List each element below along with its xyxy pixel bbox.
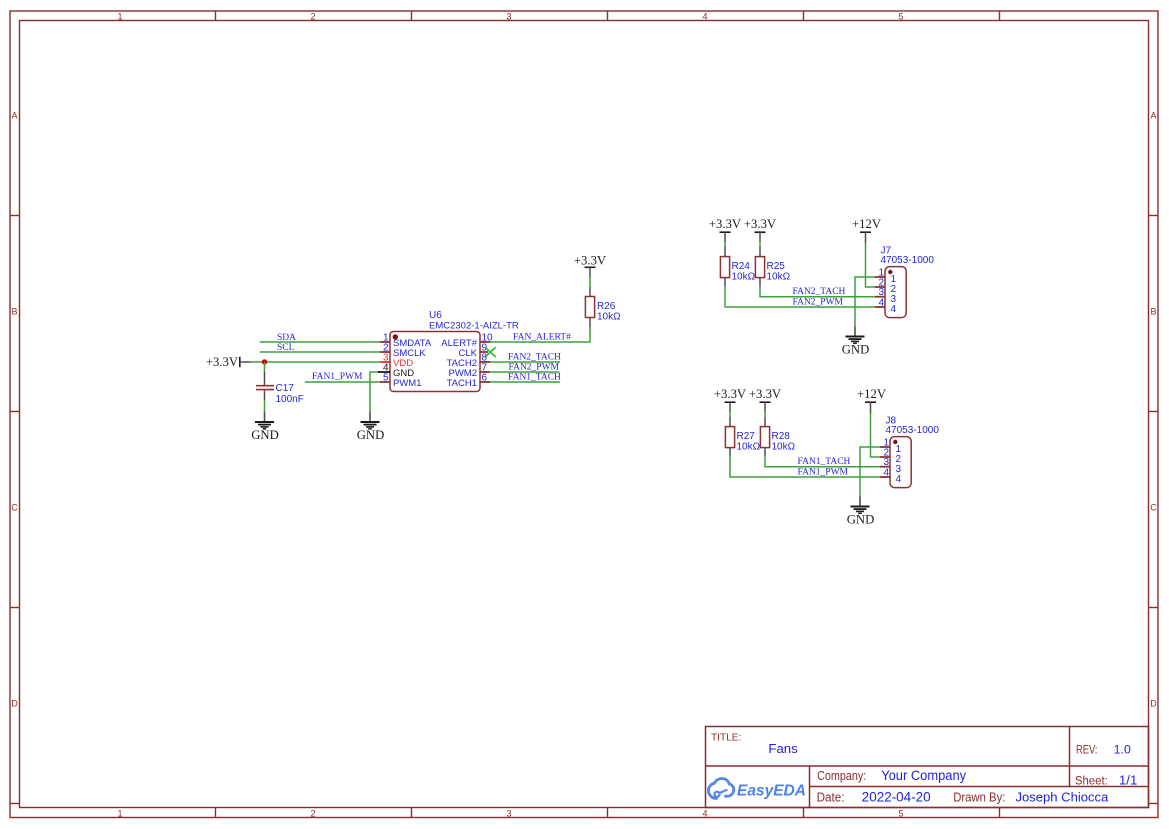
wire J7 pin 1 to ground <box>855 277 875 327</box>
wire +3.3V to R25 <box>759 242 761 257</box>
svg-text:Drawn By:: Drawn By: <box>953 791 1005 805</box>
svg-text:R25: R25 <box>767 261 786 272</box>
svg-text:Date:: Date: <box>817 790 845 805</box>
svg-text:GND: GND <box>847 512 875 526</box>
svg-text:R26: R26 <box>597 301 616 312</box>
svg-text:A: A <box>1150 111 1156 121</box>
wire VDD net <box>250 361 380 363</box>
svg-text:+3.3V: +3.3V <box>749 387 782 401</box>
net label SCL <box>277 343 295 353</box>
svg-text:TACH1: TACH1 <box>447 378 477 389</box>
svg-text:SCL: SCL <box>277 343 295 353</box>
svg-text:1: 1 <box>117 809 122 819</box>
svg-text:6: 6 <box>482 372 488 383</box>
wire +3.3V to R26 <box>589 277 591 297</box>
net FAN_ALERT# wire <box>490 327 590 342</box>
resistor R27 <box>725 427 760 453</box>
svg-text:+3.3V: +3.3V <box>709 217 742 231</box>
net label FAN1_TACH (J8) <box>798 457 851 467</box>
U6 pin names <box>393 338 478 389</box>
net label FAN2_PWM (U6) <box>509 362 560 372</box>
svg-text:GND: GND <box>357 428 385 442</box>
J8 pin 3 <box>880 457 902 475</box>
ground (U6 pin 4) <box>357 412 385 443</box>
U6 pin 4 stub <box>378 362 390 373</box>
U6 pin 10 stub <box>480 332 493 343</box>
net FAN1_PWM wire (left) <box>305 381 380 383</box>
net FAN2_TACH wire (U6) <box>490 361 560 363</box>
resistor R28 <box>760 427 795 453</box>
connector J7 47053-1000 <box>881 245 935 317</box>
svg-text:4: 4 <box>891 304 897 315</box>
EasyEDA logo <box>709 779 806 800</box>
svg-text:5: 5 <box>383 372 389 383</box>
svg-text:REV:: REV: <box>1076 744 1098 756</box>
svg-text:FAN1_PWM: FAN1_PWM <box>312 372 363 382</box>
connector J8 47053-1000 <box>886 415 940 487</box>
svg-text:3: 3 <box>506 12 511 22</box>
svg-text:C: C <box>1150 503 1157 513</box>
wire pin4 GND to ground <box>370 372 380 412</box>
net label FAN2_PWM (J7) <box>793 298 844 308</box>
net label FAN1_PWM <box>312 372 363 382</box>
power flag +3.3V (R28) <box>749 387 782 412</box>
svg-text:+12V: +12V <box>852 217 882 231</box>
wire +3.3V to R28 <box>764 412 766 427</box>
net label SDA <box>277 333 296 343</box>
wire +3.3V to R27 <box>729 412 731 427</box>
J7 pin 3 <box>875 287 897 305</box>
svg-text:+12V: +12V <box>857 387 887 401</box>
title block text <box>711 733 1137 805</box>
U6 pin 1 stub <box>380 332 390 343</box>
U6 pin 3 stub <box>380 352 390 363</box>
svg-text:4: 4 <box>702 809 707 819</box>
svg-text:Fans: Fans <box>768 741 798 756</box>
wire J8 pin 1 to ground <box>860 447 880 497</box>
wire C17 bottom <box>264 392 266 412</box>
power flag +12V (J8) <box>857 387 887 413</box>
svg-text:FAN2_TACH: FAN2_TACH <box>508 352 561 362</box>
net label FAN1_PWM (J8) <box>798 468 849 478</box>
svg-text:2022-04-20: 2022-04-20 <box>862 790 931 805</box>
net SCL wire <box>260 351 380 353</box>
svg-text:1/1: 1/1 <box>1119 773 1138 787</box>
ground (J8) <box>847 497 875 527</box>
svg-text:5: 5 <box>898 12 903 22</box>
wire R27 to J8 pin 4 (FAN1_PWM) <box>730 448 880 477</box>
capacitor C17 <box>256 383 304 405</box>
svg-text:C: C <box>11 503 18 513</box>
svg-text:3: 3 <box>506 809 511 819</box>
power flag +3.3V (R25) <box>744 217 777 242</box>
J7 group: power flag +3.3V (R24) <box>709 217 742 242</box>
resistor R24 <box>720 257 755 283</box>
svg-text:B: B <box>11 307 17 317</box>
svg-text:Company:: Company: <box>817 768 866 783</box>
U6 pin 2 stub <box>380 342 390 353</box>
power flag +3.3V (VDD net, left) <box>206 355 251 369</box>
ground (J7) <box>842 327 870 357</box>
svg-text:R28: R28 <box>772 431 791 442</box>
svg-text:FAN2_TACH: FAN2_TACH <box>793 287 846 297</box>
net label FAN_ALERT# <box>513 332 571 342</box>
svg-text:4: 4 <box>883 467 889 478</box>
J8 pin 2 <box>880 447 902 465</box>
wire +3.3V to R24 <box>724 242 726 257</box>
power flag +3.3V (R26) <box>574 254 607 278</box>
wire C17 top <box>264 362 266 384</box>
title block <box>706 727 1149 808</box>
svg-text:4: 4 <box>702 12 707 22</box>
wire +12V to J8 pin 2 <box>871 413 880 457</box>
U6 pin 6 stub <box>480 372 490 383</box>
svg-text:10kΩ: 10kΩ <box>597 312 621 323</box>
svg-text:EMC2302-1-AIZL-TR: EMC2302-1-AIZL-TR <box>429 320 519 331</box>
U6 pin 5 stub <box>380 372 390 383</box>
svg-text:Sheet:: Sheet: <box>1075 775 1108 787</box>
svg-text:EasyEDA: EasyEDA <box>737 783 806 800</box>
svg-text:GND: GND <box>842 342 870 356</box>
net FAN1_TACH wire (U6) <box>490 381 560 383</box>
wire R24 to J7 pin 4 (FAN2_PWM) <box>725 278 875 307</box>
IC U6 EMC2302-1-AIZL-TR body <box>390 310 519 392</box>
svg-text:47053-1000: 47053-1000 <box>886 425 940 436</box>
svg-text:1: 1 <box>117 12 122 22</box>
svg-text:FAN2_PWM: FAN2_PWM <box>509 362 560 372</box>
svg-text:2: 2 <box>310 809 315 819</box>
svg-text:100nF: 100nF <box>276 394 304 405</box>
net label FAN2_TACH (J7) <box>793 287 846 297</box>
svg-text:5: 5 <box>898 809 903 819</box>
J7 pin 2 <box>875 277 897 295</box>
net label FAN2_TACH (U6) <box>508 352 561 362</box>
svg-text:10kΩ: 10kΩ <box>767 272 791 283</box>
svg-text:FAN2_PWM: FAN2_PWM <box>793 298 844 308</box>
net FAN2_PWM wire (U6) <box>490 371 560 373</box>
J8 group: power flag +3.3V (R27) <box>714 387 747 412</box>
svg-text:B: B <box>1150 307 1156 317</box>
svg-text:+3.3V: +3.3V <box>206 355 239 369</box>
svg-text:1.0: 1.0 <box>1114 742 1131 756</box>
svg-text:4: 4 <box>878 297 884 308</box>
svg-text:10kΩ: 10kΩ <box>732 272 756 283</box>
svg-text:R24: R24 <box>732 261 751 272</box>
svg-text:FAN_ALERT#: FAN_ALERT# <box>513 332 571 342</box>
svg-text:C17: C17 <box>276 383 295 394</box>
svg-text:D: D <box>11 699 18 709</box>
svg-text:+3.3V: +3.3V <box>714 387 747 401</box>
resistor R25 <box>755 257 790 283</box>
wire R28 to J8 pin 3 (FAN1_TACH) <box>765 448 880 467</box>
svg-text:+3.3V: +3.3V <box>574 254 607 268</box>
svg-text:FAN1_PWM: FAN1_PWM <box>798 468 849 478</box>
svg-text:4: 4 <box>896 474 902 485</box>
svg-text:Joseph Chiocca: Joseph Chiocca <box>1016 790 1109 805</box>
wire +12V to J7 pin 2 <box>866 243 875 287</box>
svg-text:47053-1000: 47053-1000 <box>881 255 935 266</box>
power flag +12V (J7) <box>852 217 882 243</box>
U6 pin 9 stub + no-connect X <box>480 342 496 357</box>
svg-text:TITLE:: TITLE: <box>711 733 741 744</box>
svg-text:SDA: SDA <box>277 333 296 343</box>
J8 pin 4 <box>880 467 902 485</box>
svg-text:D: D <box>1150 699 1157 709</box>
net SDA wire <box>260 341 380 343</box>
resistor R26 <box>585 297 621 323</box>
wire R25 to J7 pin 3 (FAN2_TACH) <box>760 278 875 297</box>
svg-text:FAN1_TACH: FAN1_TACH <box>798 457 851 467</box>
J8 pin 1 <box>880 437 902 455</box>
U6 pin 8 stub <box>480 352 490 363</box>
svg-text:PWM1: PWM1 <box>393 378 422 389</box>
wire R26 bottom <box>589 318 591 328</box>
U6 pin 7 stub <box>480 362 490 373</box>
svg-text:10kΩ: 10kΩ <box>737 442 761 453</box>
junction (C17 tap) <box>262 359 267 364</box>
J7 pin 4 <box>875 297 897 315</box>
svg-text:Your Company: Your Company <box>881 768 966 783</box>
net label FAN1_TACH (U6) <box>508 372 561 382</box>
J7 pin 1 <box>875 267 897 285</box>
svg-text:+3.3V: +3.3V <box>744 217 777 231</box>
svg-text:10kΩ: 10kΩ <box>772 442 796 453</box>
svg-text:2: 2 <box>310 12 315 22</box>
svg-text:R27: R27 <box>737 431 756 442</box>
svg-text:FAN1_TACH: FAN1_TACH <box>508 372 561 382</box>
svg-text:GND: GND <box>251 428 279 442</box>
ground (C17) <box>251 412 279 443</box>
svg-text:A: A <box>11 111 17 121</box>
